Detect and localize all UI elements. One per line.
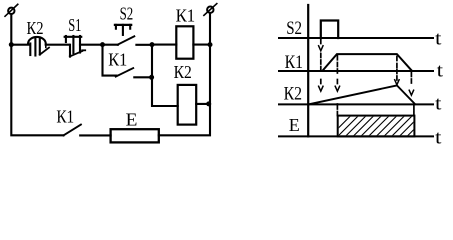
svg-text:t: t [435,94,442,115]
node junction right of S2 [150,42,155,47]
wire top rail to K2 contact [11,44,28,46]
wire bottom contact to resistor E [80,134,110,136]
terminal X2 (top-right) [204,4,217,16]
node junction at branch [149,75,154,80]
node A junction under S2 [100,42,105,47]
wire rail K2 to S1 [46,44,69,46]
wire K1 aux contact to branch [134,76,151,78]
resistor E (heating element) [111,129,159,142]
wire coil K1 to right rail [193,44,210,46]
axis t of S2 row [279,37,433,39]
waveform K2 ramp [309,85,415,104]
svg-text:t: t [435,29,442,50]
op coil K1 (relay) [176,26,193,58]
node junction right rail top [208,42,213,47]
wire junction to coil K1 [152,44,176,46]
svg-text:К2: К2 [27,18,44,38]
dashed link 4 (K1 off -> K2 drop) [409,73,413,96]
terminal X1 (top-left) [5,4,18,16]
wire coil K2 to right rail [196,103,210,105]
svg-text:E: E [289,115,300,135]
axis t of K2 row [279,103,433,105]
contact K1 (bottom, load circuit) [63,125,81,136]
wire left vertical and bottom-left rail [11,14,63,135]
svg-text:S2: S2 [286,18,302,39]
svg-text:S2: S2 [120,4,134,24]
dashed link 2 (K1 up -> K2 ramp, E on) [335,56,339,116]
axis t of K1 row [279,70,433,72]
svg-text:К1: К1 [108,50,127,70]
node junction right rail at K2 lead [206,101,211,106]
svg-text:К2: К2 [284,84,302,105]
waveform S2 pulse [321,21,338,39]
svg-text:S1: S1 [68,15,81,35]
contact S2 (push-button NO) [103,25,135,45]
wire branch down to coil K2 [152,45,178,106]
wire S2 right lead to junction [136,44,152,46]
wire right rail down and bottom rail to resistor E [159,13,210,135]
waveform E hatched bar [330,116,428,137]
axis t of E row [279,135,433,137]
svg-text:t: t [437,61,444,82]
contact K1 auxiliary (NO, self-holding) [116,68,134,77]
contact K2 (NC contact with time-delay dome) [28,37,49,56]
svg-text:E: E [126,109,138,129]
svg-text:К1: К1 [285,52,303,73]
timing diagram ordinate axis [307,5,309,136]
svg-text:К2: К2 [174,62,192,82]
node junction left rail [9,42,14,47]
waveform K1 trapezoid [323,54,412,71]
svg-text:К1: К1 [56,107,74,127]
dashed link 3 (K1 plateau end -> K2 peak) [395,57,399,85]
dashed link 5 (K2 drop -> E off) [413,106,415,116]
op coil K2 (time relay) [178,85,197,125]
dashed link 1 (S2 on -> K1, K2) [319,40,323,92]
svg-text:t: t [435,128,442,147]
wire branch to K1 auxiliary contact [103,45,117,76]
svg-text:К1: К1 [176,6,196,26]
wire rail S1 to node A [80,44,103,46]
contact S1 (manual switch) [65,36,86,57]
